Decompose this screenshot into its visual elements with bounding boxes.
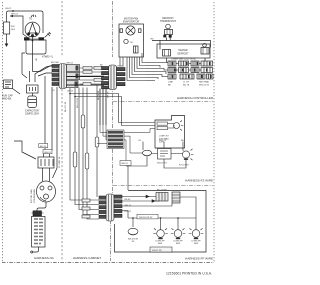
compressor terminals xyxy=(28,33,30,35)
compressor motor COMP (circle) xyxy=(25,22,40,37)
inline fuse capsule 1 xyxy=(73,152,77,167)
wire fanout diagonal 3 xyxy=(38,73,52,76)
svg-text:HARNESS-FF WIRE: HARNESS-FF WIRE xyxy=(185,257,213,261)
connector block B left pin bars xyxy=(102,67,109,70)
control cluster connector xyxy=(172,192,180,203)
NC plug connector (tall) xyxy=(31,217,45,254)
wire color label tags on band xyxy=(83,66,102,85)
svg-text:OR 18: OR 18 xyxy=(108,91,110,98)
wire FZ row collect to left xyxy=(128,156,147,190)
fan side mounts xyxy=(120,29,123,33)
svg-text:L1 GY: L1 GY xyxy=(183,82,190,84)
ground arrow below resistor xyxy=(6,34,8,44)
svg-text:SW-LT FF: SW-LT FF xyxy=(152,250,163,252)
wire motor to plug xyxy=(37,202,46,211)
compressor top tick marks xyxy=(31,15,36,18)
evaporator fan motor (circle with X blades) xyxy=(126,26,135,35)
wire fanout diagonal 2 xyxy=(33,66,53,72)
FZ light terminal tags xyxy=(157,122,168,125)
bleed resistor callout box CAP xyxy=(4,80,13,89)
label timer defrost row xyxy=(171,59,196,61)
light switch box FZ xyxy=(158,149,172,160)
svg-text:EVAPORATOR: EVAPORATOR xyxy=(123,21,139,24)
svg-text:GY: GY xyxy=(138,140,142,142)
svg-text:BK-34 18: BK-34 18 xyxy=(98,90,100,100)
connector block C left pin bars xyxy=(99,196,106,199)
svg-text:SW-DOOR FZ: SW-DOOR FZ xyxy=(139,217,153,219)
overload protector box xyxy=(27,85,39,93)
svg-text:12153601 PRINTED IN U.S.A.: 12153601 PRINTED IN U.S.A. xyxy=(166,272,212,276)
svg-text:B: B xyxy=(36,58,38,62)
wire bundle right v3 xyxy=(102,89,104,126)
wire bundle right v4 xyxy=(105,89,107,126)
wire tag on cond fan feed 2 xyxy=(43,150,52,154)
label WH-13 second wire xyxy=(11,14,19,16)
labels below block A xyxy=(52,90,74,93)
condenser fan motor (circle with terminals) xyxy=(37,181,56,202)
evaporator fan box xyxy=(119,24,144,57)
page border left (dashed) xyxy=(2,2,4,262)
label HARNESS-FF WIRE xyxy=(185,257,213,261)
label HARNESS-NC xyxy=(34,256,55,260)
wire WH-13 second xyxy=(10,16,28,38)
page border right (dashed) xyxy=(213,2,215,262)
connector block A capsule xyxy=(59,64,67,89)
long wire FF row xyxy=(128,217,196,219)
svg-text:BK-1306: BK-1306 xyxy=(51,62,60,64)
svg-text:TH: TH xyxy=(130,42,133,44)
wire from relay to run capacitor xyxy=(22,53,33,78)
label capacitor value xyxy=(25,110,39,116)
FZ light housing box xyxy=(155,116,185,149)
defrost thermostat (bimetal) xyxy=(166,24,171,29)
labels above block A xyxy=(51,62,74,65)
wire cluster to right xyxy=(180,197,196,218)
svg-text:LINE: LINE xyxy=(168,82,173,84)
svg-text:47WD-YL: 47WD-YL xyxy=(42,55,54,59)
run capacitor C1 (capsule) xyxy=(28,96,37,108)
svg-text:LIGHT-FZ: LIGHT-FZ xyxy=(159,136,169,138)
label GN-YL top wire xyxy=(5,8,12,10)
wire tag on cond fan feed 1 xyxy=(39,144,48,148)
wire box to capsule xyxy=(32,93,34,96)
harness divider vertical 2 (dash-dot, x=112.5) xyxy=(111,1,113,261)
label HARNESS-CONTROLLER xyxy=(177,96,214,100)
wire connector to motor xyxy=(43,168,50,181)
label RD xyxy=(151,39,155,41)
wire drops with labels xyxy=(143,142,183,152)
wire bundle left v2 xyxy=(75,88,99,205)
light bulb FF 2 xyxy=(171,228,186,239)
resistor (power cord) R1 xyxy=(4,22,10,34)
svg-text:YL GRD 16: YL GRD 16 xyxy=(59,156,61,168)
wire thermostat to heater elements xyxy=(152,38,211,50)
wires block A to block B (band) xyxy=(67,68,105,85)
connector block B capsule xyxy=(109,65,117,90)
harness divider horizontal controller (dashed, y=104) xyxy=(113,101,213,103)
wire bundle left v4 xyxy=(83,88,99,215)
bold band wire 2 xyxy=(67,84,105,86)
svg-text:SW-LT FZ: SW-LT FZ xyxy=(157,163,168,165)
wires out of mini block to FZ light box xyxy=(124,129,155,167)
svg-text:WH-13: WH-13 xyxy=(67,63,74,65)
svg-text:WH-13 18: WH-13 18 xyxy=(77,97,79,108)
heater element right with bulb xyxy=(203,44,207,48)
terminal row 2 xyxy=(168,68,176,73)
label HARNESS-FZ WIRE xyxy=(185,179,213,183)
svg-text:HARNESS-CABINET: HARNESS-CABINET xyxy=(73,256,102,260)
connector block C right pin bars xyxy=(114,195,122,198)
svg-text:WH-13: WH-13 xyxy=(159,140,167,142)
svg-text:HEATER: HEATER xyxy=(178,49,187,52)
svg-text:WH: WH xyxy=(11,26,15,28)
node FF row xyxy=(132,217,134,219)
svg-text:18G: 18G xyxy=(11,29,15,31)
label resistor WH 18G xyxy=(11,26,15,31)
label relay overload 47WD-YL xyxy=(42,55,54,59)
bold band wire 1 xyxy=(67,76,105,78)
arrow on second wire xyxy=(10,15,13,17)
wire cond fan feed 1 xyxy=(44,76,46,157)
label part number PRINTED IN U.S.A. xyxy=(166,272,212,276)
wire heater right down xyxy=(204,58,206,61)
wires fan box down with nested corners to controller rows xyxy=(120,57,123,67)
start relay and overload box xyxy=(26,40,46,54)
light bulb FZ lower xyxy=(128,149,193,190)
svg-text:BK-13: BK-13 xyxy=(40,146,47,148)
wire tag WH-13 on FZ collect wire xyxy=(120,161,131,166)
inline capsule 3 xyxy=(95,137,99,147)
harness divider horizontal bottom (dashed, y=262) xyxy=(2,262,214,264)
svg-text:GN-YL: GN-YL xyxy=(5,8,12,10)
wires into mini block from bundle xyxy=(97,89,107,144)
connector mini block xyxy=(107,130,124,149)
wire compressor common down through relay xyxy=(32,37,34,61)
wire labels left of block C xyxy=(82,199,90,202)
connector block B right pin bars xyxy=(117,68,126,71)
svg-text:HARNESS-NC: HARNESS-NC xyxy=(34,256,55,260)
heater element left xyxy=(163,50,171,57)
wire cross horizontals to FZ feed xyxy=(70,94,155,126)
relay terminal left xyxy=(24,37,30,40)
wire bundle right v1 xyxy=(96,85,98,197)
svg-text:DEFROST: DEFROST xyxy=(178,54,190,56)
wire drops to lamps xyxy=(133,218,196,230)
svg-text:CONDENSER: CONDENSER xyxy=(34,189,36,203)
wire cond fan feed 3 (right, to motor) xyxy=(53,87,58,178)
terminal row 3 xyxy=(168,74,176,79)
label compressor xyxy=(29,18,32,21)
labels under FZ row xyxy=(157,163,189,167)
svg-text:THERMOSTAT: THERMOSTAT xyxy=(160,20,177,23)
svg-text:OR-13: OR-13 xyxy=(67,91,74,93)
wire cond fan feed 2 xyxy=(50,87,53,157)
svg-text:NEUTRAL: NEUTRAL xyxy=(199,81,210,84)
wire bundle left v5 xyxy=(87,88,99,220)
NC plug top connector xyxy=(32,211,44,216)
label B wire xyxy=(36,58,38,62)
svg-text:WH-13: WH-13 xyxy=(121,163,128,165)
label defrost thermostat xyxy=(160,17,177,23)
label heater defrost xyxy=(178,49,190,56)
relay terminal right xyxy=(39,37,45,40)
connector block A right boxes xyxy=(67,65,80,72)
label run capacitor callout xyxy=(2,95,13,101)
labels under FF lamps xyxy=(128,239,201,246)
defrost heater box xyxy=(157,44,210,58)
svg-text:TIMER-DEF 120V 60HZ: TIMER-DEF 120V 60HZ xyxy=(171,59,196,61)
connector block C capsule xyxy=(106,194,114,221)
label motor fan evaporator xyxy=(123,18,139,24)
harness divider vertical 1 (dashed, x=62) xyxy=(61,1,63,261)
label HARNESS-CABINET xyxy=(73,256,102,260)
label YL GRD vertical xyxy=(59,156,61,168)
terminal dark cells xyxy=(172,62,212,78)
svg-text:WH-13 18: WH-13 18 xyxy=(199,84,210,86)
wire heater left down xyxy=(166,58,168,63)
door switch capsule FZ xyxy=(143,150,152,156)
svg-text:FZ LIGHT: FZ LIGHT xyxy=(179,165,189,167)
connector block A left pin bars xyxy=(52,65,59,68)
wire bundle left v1 xyxy=(70,88,99,200)
FF box outline xyxy=(115,191,207,253)
wire callout diagonal xyxy=(13,89,21,95)
labels right of block C xyxy=(125,199,132,213)
svg-text:HARNESS-FZ WIRE: HARNESS-FZ WIRE xyxy=(185,179,213,183)
svg-text:WH-13: WH-13 xyxy=(44,152,51,154)
light bulb FZ (in box) xyxy=(174,121,184,131)
wires block C to FF cluster xyxy=(122,197,172,219)
wires joining rows xyxy=(146,63,168,81)
svg-text:BU-GY 18: BU-GY 18 xyxy=(65,101,67,112)
wire bundle left v3 xyxy=(79,88,99,210)
diode arrows xyxy=(146,195,155,202)
ground lug diagonal at relay right xyxy=(45,32,51,38)
defrost limiter element xyxy=(134,46,139,53)
thermistor circle xyxy=(124,39,128,43)
svg-text:60W: 60W xyxy=(194,243,198,245)
svg-text:BU 18: BU 18 xyxy=(183,84,190,86)
svg-text:HARNESS-CONTROLLER: HARNESS-CONTROLLER xyxy=(177,96,214,100)
label motor fan condenser vertical xyxy=(30,189,36,203)
wire run capacitor pins up and fanout to connector xyxy=(30,65,55,82)
label inside fan box xyxy=(130,42,133,44)
wire tags to bulb xyxy=(168,124,175,129)
inline fuse capsule upper xyxy=(81,115,85,128)
node relay center xyxy=(32,40,34,42)
svg-text:9WD-BK: 9WD-BK xyxy=(2,98,12,101)
door switch FF (capsule) xyxy=(128,228,138,235)
wire bundle right v2 xyxy=(99,89,101,126)
switch light FF label box xyxy=(150,247,172,252)
harness divider horizontal FZ (dash-dot, y=181) xyxy=(113,185,213,187)
light bulb FF 3 xyxy=(189,228,204,239)
wire GN-YL top xyxy=(7,11,44,33)
svg-text:15MFD 250V: 15MFD 250V xyxy=(25,113,39,116)
svg-text:60W: 60W xyxy=(158,243,162,245)
light bulb FF 1 xyxy=(153,228,168,239)
node junction top wire xyxy=(12,10,14,12)
label vertical wire texts xyxy=(65,101,67,112)
svg-text:TE: TE xyxy=(29,18,32,21)
wire plug tail hook xyxy=(33,247,39,252)
svg-text:MOTOR, FAN: MOTOR, FAN xyxy=(30,189,33,203)
control cluster box xyxy=(156,193,168,202)
label light fz inside box xyxy=(159,136,169,144)
svg-text:BK-34 SW: BK-34 SW xyxy=(157,190,167,192)
inline fuse capsule 2 xyxy=(85,153,89,169)
inline connector box (cond fan) xyxy=(38,157,54,168)
labels above block B xyxy=(100,65,123,68)
wire stub upper left xyxy=(14,141,36,159)
svg-text:60W: 60W xyxy=(176,243,180,245)
terminal row 1 xyxy=(168,61,176,66)
labels under terminal rows xyxy=(168,81,210,87)
